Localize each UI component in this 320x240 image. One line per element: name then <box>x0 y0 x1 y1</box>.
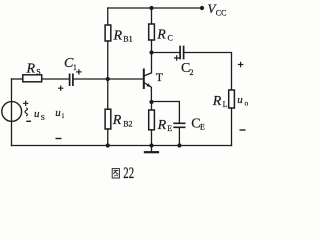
svg-text:C: C <box>168 34 173 43</box>
wire top rail <box>108 7 202 9</box>
svg-text:2: 2 <box>190 68 194 77</box>
svg-text:CC: CC <box>216 8 227 17</box>
capacitor CE <box>174 123 184 127</box>
node RE / rail <box>149 143 153 147</box>
svg-text:1: 1 <box>73 63 77 72</box>
resistor RS <box>23 75 42 82</box>
wire RS to C1 <box>42 78 69 80</box>
node RB2 / rail <box>106 143 110 147</box>
caption 图 glyph <box>112 169 119 178</box>
wire RB2 bottom <box>107 129 109 146</box>
svg-text:L: L <box>223 100 228 109</box>
resistor RE <box>149 110 155 130</box>
source u_S circle <box>2 102 22 122</box>
svg-text:i: i <box>62 111 64 120</box>
plus output <box>238 62 243 67</box>
svg-text:R: R <box>26 62 36 77</box>
wire collector to C2 <box>152 52 180 54</box>
resistor RL <box>229 90 235 108</box>
tilde of source <box>25 108 28 116</box>
transistor T base bar <box>143 70 145 89</box>
wire C2 to RL corner <box>184 53 231 91</box>
plus C1 <box>76 69 81 74</box>
svg-text:R: R <box>113 29 123 44</box>
wire RB2 top <box>107 79 109 109</box>
node base junction <box>106 77 110 81</box>
svg-text:S: S <box>36 68 40 77</box>
minus output <box>240 129 246 131</box>
emitter arrowhead <box>147 83 151 87</box>
node CE / rail <box>177 143 181 147</box>
wire RB1 bottom <box>107 41 109 79</box>
minus source <box>26 120 31 122</box>
svg-text:B2: B2 <box>123 119 132 128</box>
svg-text:R: R <box>212 94 222 109</box>
wire input left vertical <box>11 79 13 146</box>
plus source <box>23 101 28 106</box>
wire emitter to CE <box>152 102 180 123</box>
svg-text:E: E <box>167 124 172 133</box>
capacitor C1 <box>70 74 73 85</box>
svg-text:22: 22 <box>123 165 134 182</box>
minus u_i <box>56 138 62 140</box>
svg-text:B1: B1 <box>123 35 132 44</box>
plus u_i <box>58 86 63 91</box>
svg-text:T: T <box>156 70 164 84</box>
wire RB1 top <box>107 8 109 25</box>
wire input horizontal left <box>12 78 23 80</box>
svg-text:E: E <box>200 123 205 132</box>
transistor emitter lead <box>145 83 152 102</box>
svg-text:R: R <box>157 118 167 133</box>
ground <box>151 146 153 152</box>
node Vcc terminal <box>200 6 204 10</box>
wire RE bottom <box>151 130 153 146</box>
svg-text:R: R <box>156 27 166 42</box>
node emitter <box>149 100 153 104</box>
resistor RC <box>149 24 155 40</box>
capacitor C2 <box>180 47 184 59</box>
wire C1 to base <box>74 78 144 80</box>
wire RC top <box>151 8 153 24</box>
node collector <box>149 50 153 54</box>
resistor RB1 <box>105 25 111 41</box>
plus C2 <box>174 55 179 60</box>
svg-text:S: S <box>41 113 45 122</box>
wire CE bottom <box>178 128 180 145</box>
transistor collector lead <box>145 53 152 76</box>
wire bottom rail <box>12 145 232 147</box>
wire RL bottom <box>231 108 233 146</box>
svg-text:o: o <box>245 98 249 107</box>
node top rail / RC <box>149 6 153 10</box>
wire RE top <box>151 102 153 110</box>
svg-text:u: u <box>34 108 40 120</box>
svg-text:R: R <box>112 113 122 128</box>
resistor RB2 <box>105 109 111 129</box>
wire RC bottom <box>151 40 153 53</box>
svg-text:u: u <box>237 94 243 106</box>
svg-text:u: u <box>55 107 61 119</box>
